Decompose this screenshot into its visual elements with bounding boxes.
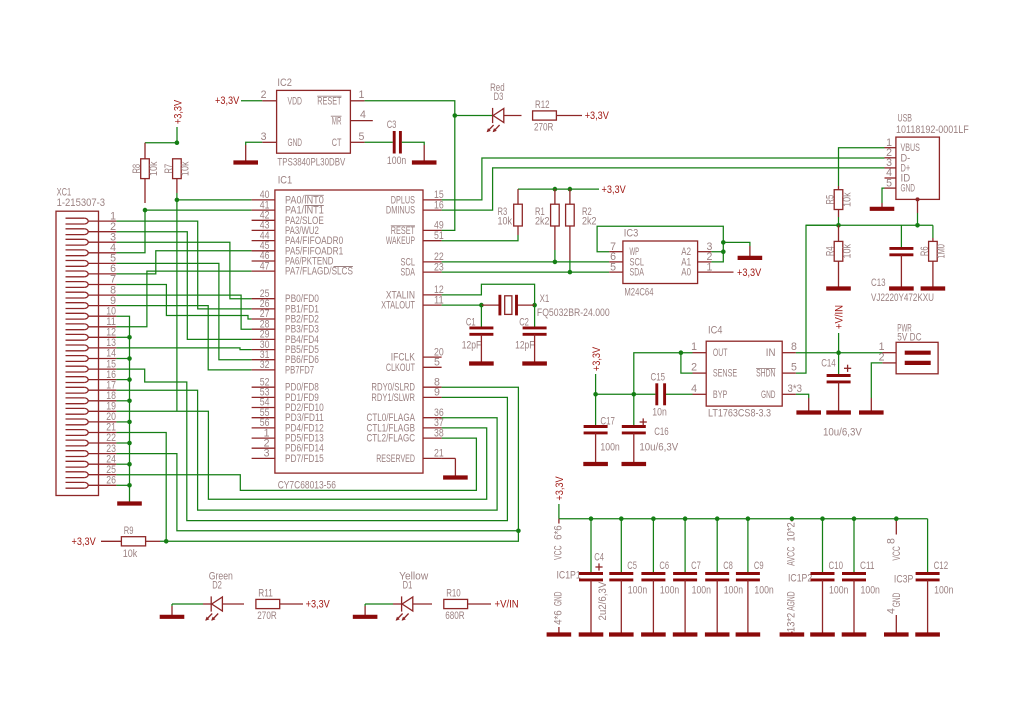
wire +3,3V rail (bank) [559, 518, 928, 520]
svg-text:38: 38 [434, 427, 444, 439]
power pin IC1P1 VCC/GND [553, 519, 581, 631]
IC1 pin 46 PA6/PKTEND [252, 250, 334, 267]
junction (LED tap) [453, 113, 458, 118]
svg-text:+3,3V: +3,3V [602, 184, 627, 196]
wire XTALIN loop [442, 284, 535, 305]
capacitor C13 VJ2220Y472KXU [871, 225, 934, 303]
IC4 pin 3*3 GND [761, 383, 802, 401]
wire WAKEUP net (IC1 pin 51 - R3) [442, 235, 518, 241]
wire +3,3V rail (IC4 out) [593, 392, 655, 397]
svg-text:IC3P: IC3P [894, 574, 913, 586]
net +3,3V (IC3 A0) [711, 267, 762, 279]
svg-text:47: 47 [260, 260, 270, 272]
resistor R2 2k2 [566, 189, 597, 260]
IC1 pin 36 CTL0/FLAGA [367, 407, 444, 424]
XC1 pin 24 [66, 453, 117, 467]
IC1 pin 40 PA0/INT0 [252, 189, 324, 206]
IC1 pin 8 RDY0/SLRD [371, 376, 441, 393]
IC1 pin 20 IFCLK [391, 346, 444, 363]
svg-text:GND: GND [761, 389, 776, 401]
ground (IC1 RESERVED pin 21) [442, 458, 468, 477]
IC1 pin 5 CLKOUT [386, 357, 442, 374]
svg-text:C2: C2 [519, 316, 529, 328]
svg-text:100n: 100n [861, 585, 880, 597]
resistor R8 10k [131, 143, 160, 203]
svg-text:10u/6,3V: 10u/6,3V [639, 441, 679, 453]
svg-text:10118192-0001LF: 10118192-0001LF [896, 124, 969, 136]
LED D1 Yellow [393, 571, 432, 621]
XC1 pin 5 [66, 253, 117, 267]
IC1 pin 22 SCL [401, 251, 444, 268]
IC1 pin 42 PA2/SLOE [252, 210, 324, 227]
IC2 pin 3 GND [261, 131, 303, 149]
ground (IC3P) [884, 631, 909, 635]
svg-text:IC4: IC4 [708, 325, 723, 337]
net +3,3V (R9) [72, 536, 122, 548]
wire IC2 GND to ground [246, 142, 263, 145]
svg-text:SDA: SDA [630, 267, 645, 279]
svg-text:C9: C9 [754, 560, 764, 572]
svg-text:MR: MR [332, 115, 342, 127]
IC1 pin 37 CTL1/FLAGB [367, 417, 444, 434]
IC1 pin 55 PD3/FD11 [252, 407, 324, 424]
svg-text:DMINUS: DMINUS [386, 205, 415, 217]
wire XC1 pin 7 to IC1 [116, 285, 251, 320]
IC1 pin 45 PA5/FIFOADR1 [252, 240, 344, 257]
net +3,3V (bank) [554, 476, 566, 519]
wire +3,3V to R8/R7 [145, 140, 179, 145]
wire XTALOUT [442, 304, 482, 306]
USB pin 5 GND [885, 177, 916, 194]
wire IC3 WP loop to A2/A1 [597, 226, 723, 252]
IC1 pin 1 PD5/FD13 [252, 427, 324, 444]
IC1 pin 25 PB0/FD0 [252, 288, 319, 305]
ground (C8) [705, 631, 730, 635]
svg-text:2u2/6,3V: 2u2/6,3V [597, 581, 609, 621]
svg-text:LT1763CS8-3.3: LT1763CS8-3.3 [708, 407, 771, 419]
svg-text:WAKEUP: WAKEUP [386, 235, 415, 247]
wire XC1 pin 6 to IC1 [116, 251, 251, 274]
svg-text:GND: GND [553, 591, 565, 606]
connector PWR 5V DC [896, 322, 938, 374]
IC1 pin 27 PB2/FD2 [252, 308, 319, 325]
USB pin 4 ID [885, 167, 911, 184]
IC4 pin 5 SHDN [756, 362, 797, 380]
svg-text:10k: 10k [180, 161, 192, 176]
USB pin 3 D+ [885, 157, 911, 174]
net +3,3V (pullup rail) [518, 184, 627, 196]
wire to LED D3 [455, 115, 493, 117]
ground (C9) [736, 631, 761, 635]
IC1 pin 52 PD0/FD8 [252, 376, 319, 393]
ground (PWR) [859, 398, 884, 413]
USB pin 1 VBUS [885, 137, 920, 154]
junction (crystal left) [479, 303, 484, 308]
capacitor C11 100n [842, 516, 880, 631]
IC1 pin 23 SDA [401, 261, 444, 278]
svg-text:C17: C17 [600, 415, 615, 427]
svg-text:6*6: 6*6 [553, 525, 565, 540]
svg-text:VJ2220Y472KXU: VJ2220Y472KXU [871, 292, 934, 304]
net +V/IN (R10) [468, 599, 519, 611]
svg-text:A0: A0 [681, 267, 691, 279]
IC IC4 LT1763CS8-3.3 box [706, 325, 782, 420]
svg-text:C16: C16 [654, 426, 669, 438]
svg-text:C14: C14 [821, 358, 836, 370]
svg-text:1: 1 [359, 89, 365, 101]
IC1 pin 16 DMINUS [386, 199, 444, 216]
IC1 pin 43 PA3/WU2 [252, 220, 319, 237]
resistor R5 10k [825, 186, 854, 217]
net +3,3V (IC4) [591, 346, 603, 394]
svg-text:32: 32 [260, 359, 270, 371]
XC1 pin 17 [66, 379, 117, 393]
wire SCL [442, 261, 610, 263]
svg-text:100n: 100n [600, 441, 619, 453]
svg-text:100n: 100n [692, 585, 711, 597]
svg-text:5: 5 [791, 362, 797, 374]
IC4 pin 8 IN [766, 341, 797, 359]
svg-text:C4: C4 [594, 552, 604, 564]
net +3,3V (above R7/R8) [173, 99, 185, 143]
svg-text:R12: R12 [535, 99, 550, 111]
svg-text:IC1P2: IC1P2 [788, 573, 812, 585]
IC IC3 M24C64 box [623, 228, 698, 299]
svg-text:2k2: 2k2 [535, 215, 550, 227]
svg-text:5V DC: 5V DC [897, 332, 921, 344]
XC1 pin 22 [66, 432, 117, 446]
capacitor C14 10u/6,3V [821, 353, 862, 439]
svg-text:10k: 10k [498, 215, 513, 227]
svg-text:8: 8 [791, 341, 797, 353]
svg-text:1: 1 [691, 341, 697, 353]
svg-text:100n: 100n [387, 155, 406, 167]
svg-text:IN: IN [766, 347, 776, 359]
wire XC1 pin 9 to IC1 [116, 306, 251, 370]
ground (IC3) [738, 246, 763, 258]
power pin IC3P VCC/GND [886, 516, 914, 631]
svg-text:IC3: IC3 [624, 228, 639, 240]
ground (IC1P2) [780, 632, 805, 635]
svg-text:FQ5032BR-24.000: FQ5032BR-24.000 [537, 307, 610, 319]
svg-text:5: 5 [359, 131, 365, 143]
IC1 pin 12 XTALIN [386, 284, 444, 301]
XC1 pin 7 [66, 274, 117, 288]
svg-text:C3: C3 [387, 119, 397, 131]
svg-text:10u/6,3V: 10u/6,3V [823, 426, 863, 438]
svg-text:IC1: IC1 [278, 175, 293, 187]
junction (IC3 gnd tap) [721, 240, 726, 245]
wire XC1 pin 17 to IC1 [116, 390, 497, 510]
svg-text:R10: R10 [446, 588, 461, 600]
svg-text:13*2: 13*2 [786, 613, 798, 632]
svg-text:RESET: RESET [317, 95, 342, 107]
svg-text:GND: GND [288, 137, 303, 149]
wire XC1 pin 1 to IC1 [116, 221, 251, 309]
ground (C6) [641, 631, 666, 635]
wire DPLUS to USB [442, 158, 885, 200]
svg-text:26: 26 [106, 475, 116, 487]
IC4 pin 2 SENSE [691, 362, 737, 380]
capacitor C8 100n [705, 516, 743, 631]
svg-text:VDD: VDD [288, 95, 303, 107]
svg-text:X1: X1 [540, 293, 550, 305]
wire XC1 pin 15 to IC1 [116, 369, 507, 520]
connector USB 10118192-0001LF [896, 112, 969, 199]
wire XC1 pin 23 to IC1 [116, 454, 518, 531]
svg-text:100n: 100n [660, 585, 679, 597]
capacitor C7 100n [673, 516, 711, 631]
ground (C17) [583, 433, 608, 464]
LED D3 Red [487, 82, 522, 132]
net +V/IN (C14) [834, 305, 846, 353]
svg-text:2: 2 [261, 89, 267, 101]
XC1 pin 21 [66, 422, 117, 436]
IC1 pin 30 PB5/FD5 [252, 339, 319, 356]
IC1 pin 44 PA4/FIFOADR0 [252, 230, 344, 247]
power pin IC1P2 AVCC/AGND [786, 516, 813, 632]
svg-text:GND: GND [891, 592, 903, 607]
svg-text:R11: R11 [258, 588, 273, 600]
XC1 pin 9 [66, 295, 117, 309]
IC2 pin 5 CT [332, 131, 365, 149]
wire PWR pin2 to ground [871, 363, 882, 398]
IC1 pin 9 RDY1/SLWR [371, 387, 441, 404]
IC1 pin 29 PB4/FD4 [252, 329, 319, 346]
svg-text:C8: C8 [723, 560, 733, 572]
wire R1 to SCL [553, 250, 558, 264]
wire USB GND to ground [882, 188, 885, 203]
svg-text:IC2: IC2 [277, 77, 292, 89]
ground (D1) [353, 604, 378, 617]
svg-text:+3,3V: +3,3V [215, 95, 240, 107]
svg-text:C12: C12 [934, 560, 949, 572]
ground (C1) [469, 334, 494, 363]
junction (OUT) [679, 350, 684, 355]
svg-text:100n: 100n [628, 585, 647, 597]
svg-text:CT: CT [332, 137, 342, 149]
wire R9 / XC1.21 to IC1 pin 8 RDY0 [160, 387, 521, 543]
XC1 pin 13 [66, 337, 117, 351]
resistor R4 10k [825, 225, 854, 283]
wire C3 to ground [402, 142, 424, 145]
XC1 pin 4 [66, 242, 117, 256]
IC1 pin 31 PB6/FD6 [252, 349, 319, 366]
IC3 pin 2 A1 [681, 251, 712, 268]
wire IC2 CT to C3 [365, 141, 393, 143]
junction (R7 / pin40) [175, 198, 180, 203]
junction (crystal right) [532, 303, 537, 308]
wire XC1 pin 3 to IC1 [116, 242, 251, 299]
XC1 pin 3 [66, 231, 117, 245]
svg-text:R4: R4 [825, 246, 837, 256]
svg-text:5: 5 [886, 177, 892, 189]
svg-text:2: 2 [879, 351, 885, 363]
svg-text:8: 8 [886, 538, 898, 544]
ground (C11) [842, 631, 867, 635]
svg-text:+3,3V: +3,3V [737, 267, 762, 279]
IC1 pin 21 RESERVED [376, 448, 444, 465]
IC2 pin 1 RESET [317, 89, 364, 107]
wire XC1 pin 11 to IC1 [116, 271, 251, 327]
svg-text:D2: D2 [212, 580, 222, 592]
svg-text:VCC: VCC [553, 545, 565, 560]
net +3,3V (R12) [556, 110, 609, 122]
svg-text:+3,3V: +3,3V [554, 476, 566, 501]
wire XC1 pin 21 to R9 [116, 433, 166, 542]
wire XC1 pin 8 to IC1 [116, 295, 251, 329]
svg-text:AVCC: AVCC [786, 546, 798, 566]
svg-text:12pF: 12pF [515, 339, 535, 351]
capacitor C16 10u/6,3V [622, 394, 679, 453]
XC1 pin 14 [66, 348, 117, 362]
resistor R10 680R [444, 588, 468, 623]
wire XC1 pin 5 to IC1 [116, 263, 251, 359]
ground (C2) [522, 334, 547, 363]
XC1 pin 16 [66, 369, 117, 383]
USB pin 2 D- [885, 147, 911, 164]
wire XC1 pin 2 to IC1 [116, 232, 251, 340]
svg-text:TPS3840PL30DBV: TPS3840PL30DBV [277, 157, 346, 169]
wire IC4 GND to ground [796, 394, 809, 398]
ground (IC2) [233, 145, 258, 163]
svg-text:C11: C11 [860, 560, 875, 572]
svg-text:IC1P1: IC1P1 [557, 570, 581, 582]
wire XC1 pin 13 to IC1 [116, 348, 251, 350]
svg-text:XTALOUT: XTALOUT [381, 300, 415, 312]
svg-text:OUT: OUT [713, 347, 728, 359]
IC1 pin 56 PD4/FD12 [252, 417, 324, 434]
net +3,3V (IC2 VDD) [215, 95, 262, 107]
XC1 pin 23 [66, 443, 117, 457]
svg-text:3: 3 [261, 131, 267, 143]
wire RESET net IC2 to IC1 pin 49 [365, 101, 455, 231]
svg-text:+3,3V: +3,3V [585, 110, 610, 122]
IC1 pin 28 PB3/FD3 [252, 318, 319, 335]
IC1 pin 15 DPLUS [391, 189, 444, 206]
svg-text:4: 4 [360, 109, 366, 121]
capacitor C12 100n [916, 519, 954, 631]
resistor R9 10k [121, 525, 160, 560]
net +3,3V (R11) [280, 599, 331, 611]
svg-text:2: 2 [691, 362, 697, 374]
svg-text:10n: 10n [652, 406, 667, 418]
svg-text:10k: 10k [841, 243, 853, 258]
ground (R4) [826, 283, 851, 289]
op-amp U IC1 CY7C68013-56 box [275, 175, 423, 492]
svg-text:1-215307-3: 1-215307-3 [57, 197, 106, 209]
ground (C5) [609, 631, 634, 635]
svg-text:SHDN: SHDN [756, 368, 775, 380]
svg-text:SENSE: SENSE [713, 368, 737, 380]
svg-text:+V/IN: +V/IN [495, 599, 519, 611]
wire OUT/SENSE [634, 353, 693, 395]
capacitor C6 100n [641, 516, 679, 631]
resistor R7 10k [163, 159, 192, 193]
IC1 pin 38 CTL2/FLAGC [367, 427, 444, 444]
wire USB shield [916, 197, 920, 225]
svg-text:270R: 270R [257, 610, 277, 622]
svg-text:2k2: 2k2 [582, 215, 597, 227]
svg-text:+V/IN: +V/IN [834, 305, 846, 329]
svg-text:270R: 270R [534, 122, 554, 134]
svg-text:680R: 680R [445, 610, 465, 622]
svg-text:PB7FD7: PB7FD7 [285, 364, 314, 376]
svg-text:VCC: VCC [891, 546, 903, 561]
junction (A2) [721, 249, 726, 254]
IC2 pin 4 MR (n.c.) [331, 109, 373, 127]
svg-text:3*3: 3*3 [788, 383, 803, 395]
XC1 pin 11 [66, 316, 117, 330]
IC3 pin 3 A2 [681, 241, 712, 258]
svg-text:D1: D1 [403, 580, 413, 592]
IC1 pin 26 PB1/FD1 [252, 298, 319, 315]
svg-text:R9: R9 [124, 525, 134, 537]
XC1 pin 20 [66, 411, 117, 425]
svg-text:C7: C7 [691, 560, 701, 572]
svg-text:R8: R8 [131, 164, 143, 174]
IC1 pin 53 PD1/FD9 [252, 387, 319, 404]
ground (C14) [826, 382, 851, 413]
ground (IC4) [796, 398, 821, 413]
capacitor C15 10n [651, 371, 693, 418]
IC1 pin 2 PD6/FD14 [252, 437, 324, 454]
IC3 pin 7 WP [609, 241, 639, 258]
svg-text:12pF: 12pF [462, 339, 482, 351]
svg-text:4: 4 [886, 608, 898, 614]
XC1 pin 10 [66, 305, 117, 319]
IC3 pin 5 SDA [609, 261, 644, 278]
ground (USB GND) [870, 203, 895, 209]
svg-text:100n: 100n [754, 585, 773, 597]
XC1 pin 25 [66, 464, 117, 478]
svg-text:C5: C5 [627, 560, 637, 572]
wire SDA [442, 271, 610, 273]
svg-text:3: 3 [264, 448, 270, 460]
wire XC1 pin 19 to IC1 [116, 411, 486, 499]
XC1 pin 18 [66, 390, 117, 404]
svg-text:SDA: SDA [401, 267, 416, 279]
svg-text:+3,3V: +3,3V [306, 599, 331, 611]
ground (C4) [579, 631, 604, 635]
IC1 pin 49 RESET [391, 220, 444, 237]
IC3 pin 1 A0 [681, 261, 712, 278]
svg-text:M24C64: M24C64 [624, 286, 653, 298]
PWR pin 2 [879, 351, 897, 363]
connector XC1 [56, 187, 105, 496]
wire DMINUS to USB [442, 168, 885, 210]
resistor R1 2k2 [535, 189, 559, 250]
XC1 pin 1 [66, 210, 117, 224]
LED D2 Green [203, 571, 244, 621]
crystal X1 FQ5032BR-24.000 [481, 293, 609, 319]
svg-text:D3: D3 [494, 91, 504, 103]
wire XC1 pin 4 to IC1 pin 41 [116, 210, 251, 253]
svg-text:R6: R6 [919, 246, 931, 256]
svg-text:5: 5 [434, 357, 440, 369]
wire gnd to D1 [365, 603, 393, 605]
resistor R6 1M0 [919, 225, 948, 283]
XC1 pin 6 [66, 263, 117, 277]
svg-text:R7: R7 [163, 164, 175, 174]
svg-text:USB: USB [898, 112, 913, 124]
svg-text:CLKOUT: CLKOUT [386, 362, 415, 374]
svg-text:+3,3V: +3,3V [72, 536, 97, 548]
svg-text:PD7/FD15: PD7/FD15 [285, 453, 324, 465]
capacitor C1 12pF [462, 305, 494, 351]
wire VBUS to R5 [839, 148, 885, 186]
XC1 pin 12 [66, 327, 117, 341]
